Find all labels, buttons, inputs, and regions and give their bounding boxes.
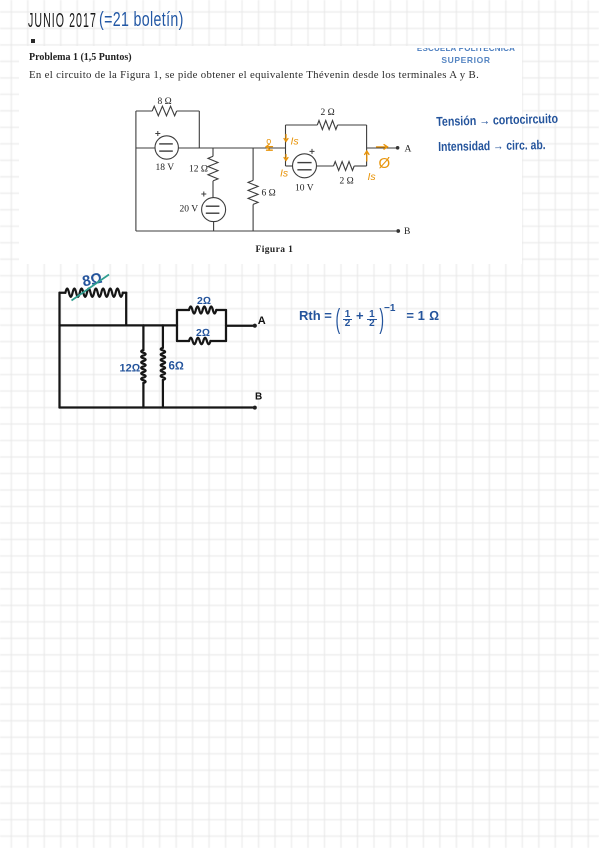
svg-text:6Ω: 6Ω bbox=[169, 361, 184, 373]
svg-text:2Ω: 2Ω bbox=[196, 327, 210, 339]
svg-text:2 Ω: 2 Ω bbox=[340, 177, 354, 187]
svg-text:6 Ω: 6 Ω bbox=[262, 189, 276, 199]
svg-text:A: A bbox=[405, 145, 412, 155]
svg-text:B: B bbox=[255, 392, 262, 403]
svg-text:10 V: 10 V bbox=[295, 184, 314, 194]
svg-text:2 Ω: 2 Ω bbox=[321, 108, 335, 118]
svg-text:Is: Is bbox=[291, 136, 300, 148]
svg-text:20 V: 20 V bbox=[180, 205, 199, 215]
svg-text:A: A bbox=[258, 315, 266, 327]
svg-text:o: o bbox=[266, 136, 271, 146]
svg-text:Is: Is bbox=[280, 168, 289, 180]
svg-text:12 Ω: 12 Ω bbox=[189, 165, 208, 175]
svg-text:Is: Is bbox=[368, 171, 377, 183]
svg-text:Ø: Ø bbox=[379, 155, 391, 172]
svg-text:12Ω: 12Ω bbox=[120, 363, 141, 375]
svg-text:18 V: 18 V bbox=[156, 163, 175, 173]
svg-text:8 Ω: 8 Ω bbox=[158, 97, 172, 107]
svg-text:B: B bbox=[404, 227, 410, 237]
svg-text:2Ω: 2Ω bbox=[197, 295, 211, 307]
